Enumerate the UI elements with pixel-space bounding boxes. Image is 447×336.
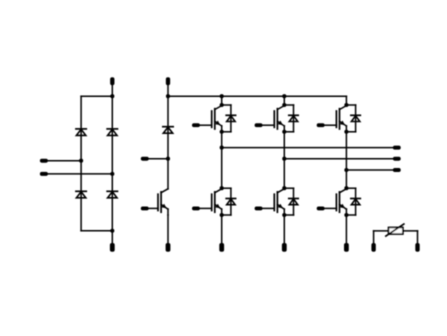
wire bottom node to DC- terminal [111,231,113,244]
terminal DC- (rectifier bottom) [110,243,115,252]
wire R- node to Q7 collector [167,159,169,189]
emitter node dot Q1 [220,130,224,134]
freewheel diode D51 [289,199,298,205]
junction rectifier bottom node [110,229,114,233]
IGBT Q7 (brake chopper) [149,189,169,215]
wire leg 3 phase tap to bottom IGBT [345,170,347,188]
terminal leg 3 bottom [344,243,349,252]
gate terminal bottom IGBT leg 2 [255,206,263,210]
emitter node dot Q2 [282,130,286,134]
gate terminal top IGBT leg 3 [317,123,325,127]
diode D1 [76,129,86,136]
wire rectifier top terminal to top node [111,85,113,97]
wire AC1 to left branch [48,160,81,162]
wire leg 2 bus to top IGBT [283,96,285,105]
freewheel diode D61 loop wire [346,188,355,215]
junction phase V tap [282,157,286,161]
freewheel diode D21 loop wire [284,105,293,132]
wire D4 anode to bottom node [111,192,113,231]
wire thermistor left lead [374,231,389,244]
terminal R+ (brake top) [166,77,170,85]
freewheel diode D21 [289,115,298,121]
junction DC+ bus leg 2 [282,94,286,98]
emitter node dot Q5 [282,213,286,217]
junction phase U tap [220,146,224,150]
wire leg 1 bus to top IGBT [221,96,223,105]
freewheel diode D31 loop wire [346,105,355,132]
junction brake branch / DC+ bus [166,94,170,98]
collector node dot Q1 [220,103,224,107]
wire leg 1 bottom emitter stub [221,215,223,244]
collector node dot Q4 [220,186,224,190]
gate terminal top IGBT leg 1 [192,123,200,127]
terminal phase output W [393,168,401,172]
wire D1 anode to AC1 node [80,129,82,160]
IGBT Q3 [325,106,347,132]
gate terminal brake chopper [141,206,149,210]
wire phase output V [284,158,393,160]
wire rectifier top horizontal [81,95,112,97]
terminal AC input L2 [40,172,48,176]
terminal leg 2 bottom [282,243,287,252]
wire D3 anode to bottom [80,192,82,231]
collector node dot Q6 [344,186,348,190]
freewheel diode D51 loop wire [284,188,293,215]
terminal thermistor right [415,243,419,252]
junction phase W tap [344,168,348,172]
collector node dot Q3 [344,103,348,107]
wire leg 1 phase tap to bottom IGBT [221,148,223,189]
wire right branch AC2 to D4 [111,174,113,191]
junction AC1 node [79,159,83,163]
freewheel diode D31 [351,115,360,121]
wire thermistor right lead [403,231,418,244]
collector node dot Q5 [282,186,286,190]
IGBT Q4 [200,189,222,215]
wire brake branch to D5 [167,96,169,127]
thermistor RT1 body [386,224,404,236]
wire leg 2 bottom emitter stub [283,215,285,244]
IGBT Q6 [325,189,347,215]
diode D4 [107,191,117,198]
freewheel diode D11 loop wire [222,105,231,132]
junction R- node [166,157,170,161]
wire phase output W [346,169,393,171]
freewheel diode D41 [226,199,235,205]
IGBT Q1 [200,106,222,132]
terminal phase output V [393,157,401,161]
wire leg 2 emitter to phase tap [283,132,285,159]
terminal R- (brake resistor) [141,157,149,161]
gate terminal bottom IGBT leg 1 [192,206,200,210]
terminal brake bottom [166,243,171,252]
IGBT Q5 [262,189,284,215]
emitter node dot Q3 [344,130,348,134]
wire phase output U [222,147,393,149]
freewheel diode D11 [226,115,235,121]
diode D2 [107,129,117,136]
wire AC2 to right branch [48,173,112,175]
wire Q7 emitter to terminal [167,215,169,244]
wire rectifier right branch upper [111,96,113,129]
emitter node dot Q4 [220,213,224,217]
junction DC+ bus leg 1 [220,94,224,98]
terminal phase output U [393,146,401,150]
wire rectifier bottom horizontal [81,230,112,232]
emitter node dot Q6 [344,213,348,217]
wire leg 1 emitter to phase tap [221,132,223,148]
terminal DC+ (rectifier top) [110,77,114,85]
junction rectifier top node [110,94,114,98]
wire D5 anode to R- node [167,127,169,159]
diode D3 [76,191,86,198]
wire left branch AC1 to D3 [80,161,82,192]
wire leg 2 phase tap to bottom IGBT [283,159,285,189]
wire leg 3 emitter to phase tap [345,132,347,170]
terminal thermistor left [371,243,375,252]
terminal AC input L1 [40,159,48,163]
junction AC2 node [110,172,114,176]
terminal leg 1 bottom [219,243,224,252]
collector node dot Q2 [282,103,286,107]
wire brake terminal to DC bus [167,85,169,97]
wire leg 3 bottom emitter stub [345,215,347,244]
wire leg 3 bus to top IGBT [345,96,347,105]
wire rectifier left branch upper [80,96,82,129]
freewheel diode D41 loop wire [222,188,231,215]
wire R- terminal to brake branch [149,158,168,160]
wire D2 anode to AC2 node [111,129,113,174]
freewheel diode D61 [351,199,360,205]
IGBT Q2 [262,106,284,132]
wire DC+ bus [168,95,346,97]
gate terminal bottom IGBT leg 3 [317,206,325,210]
diode D5 (brake) [163,127,173,134]
gate terminal top IGBT leg 2 [255,123,263,127]
